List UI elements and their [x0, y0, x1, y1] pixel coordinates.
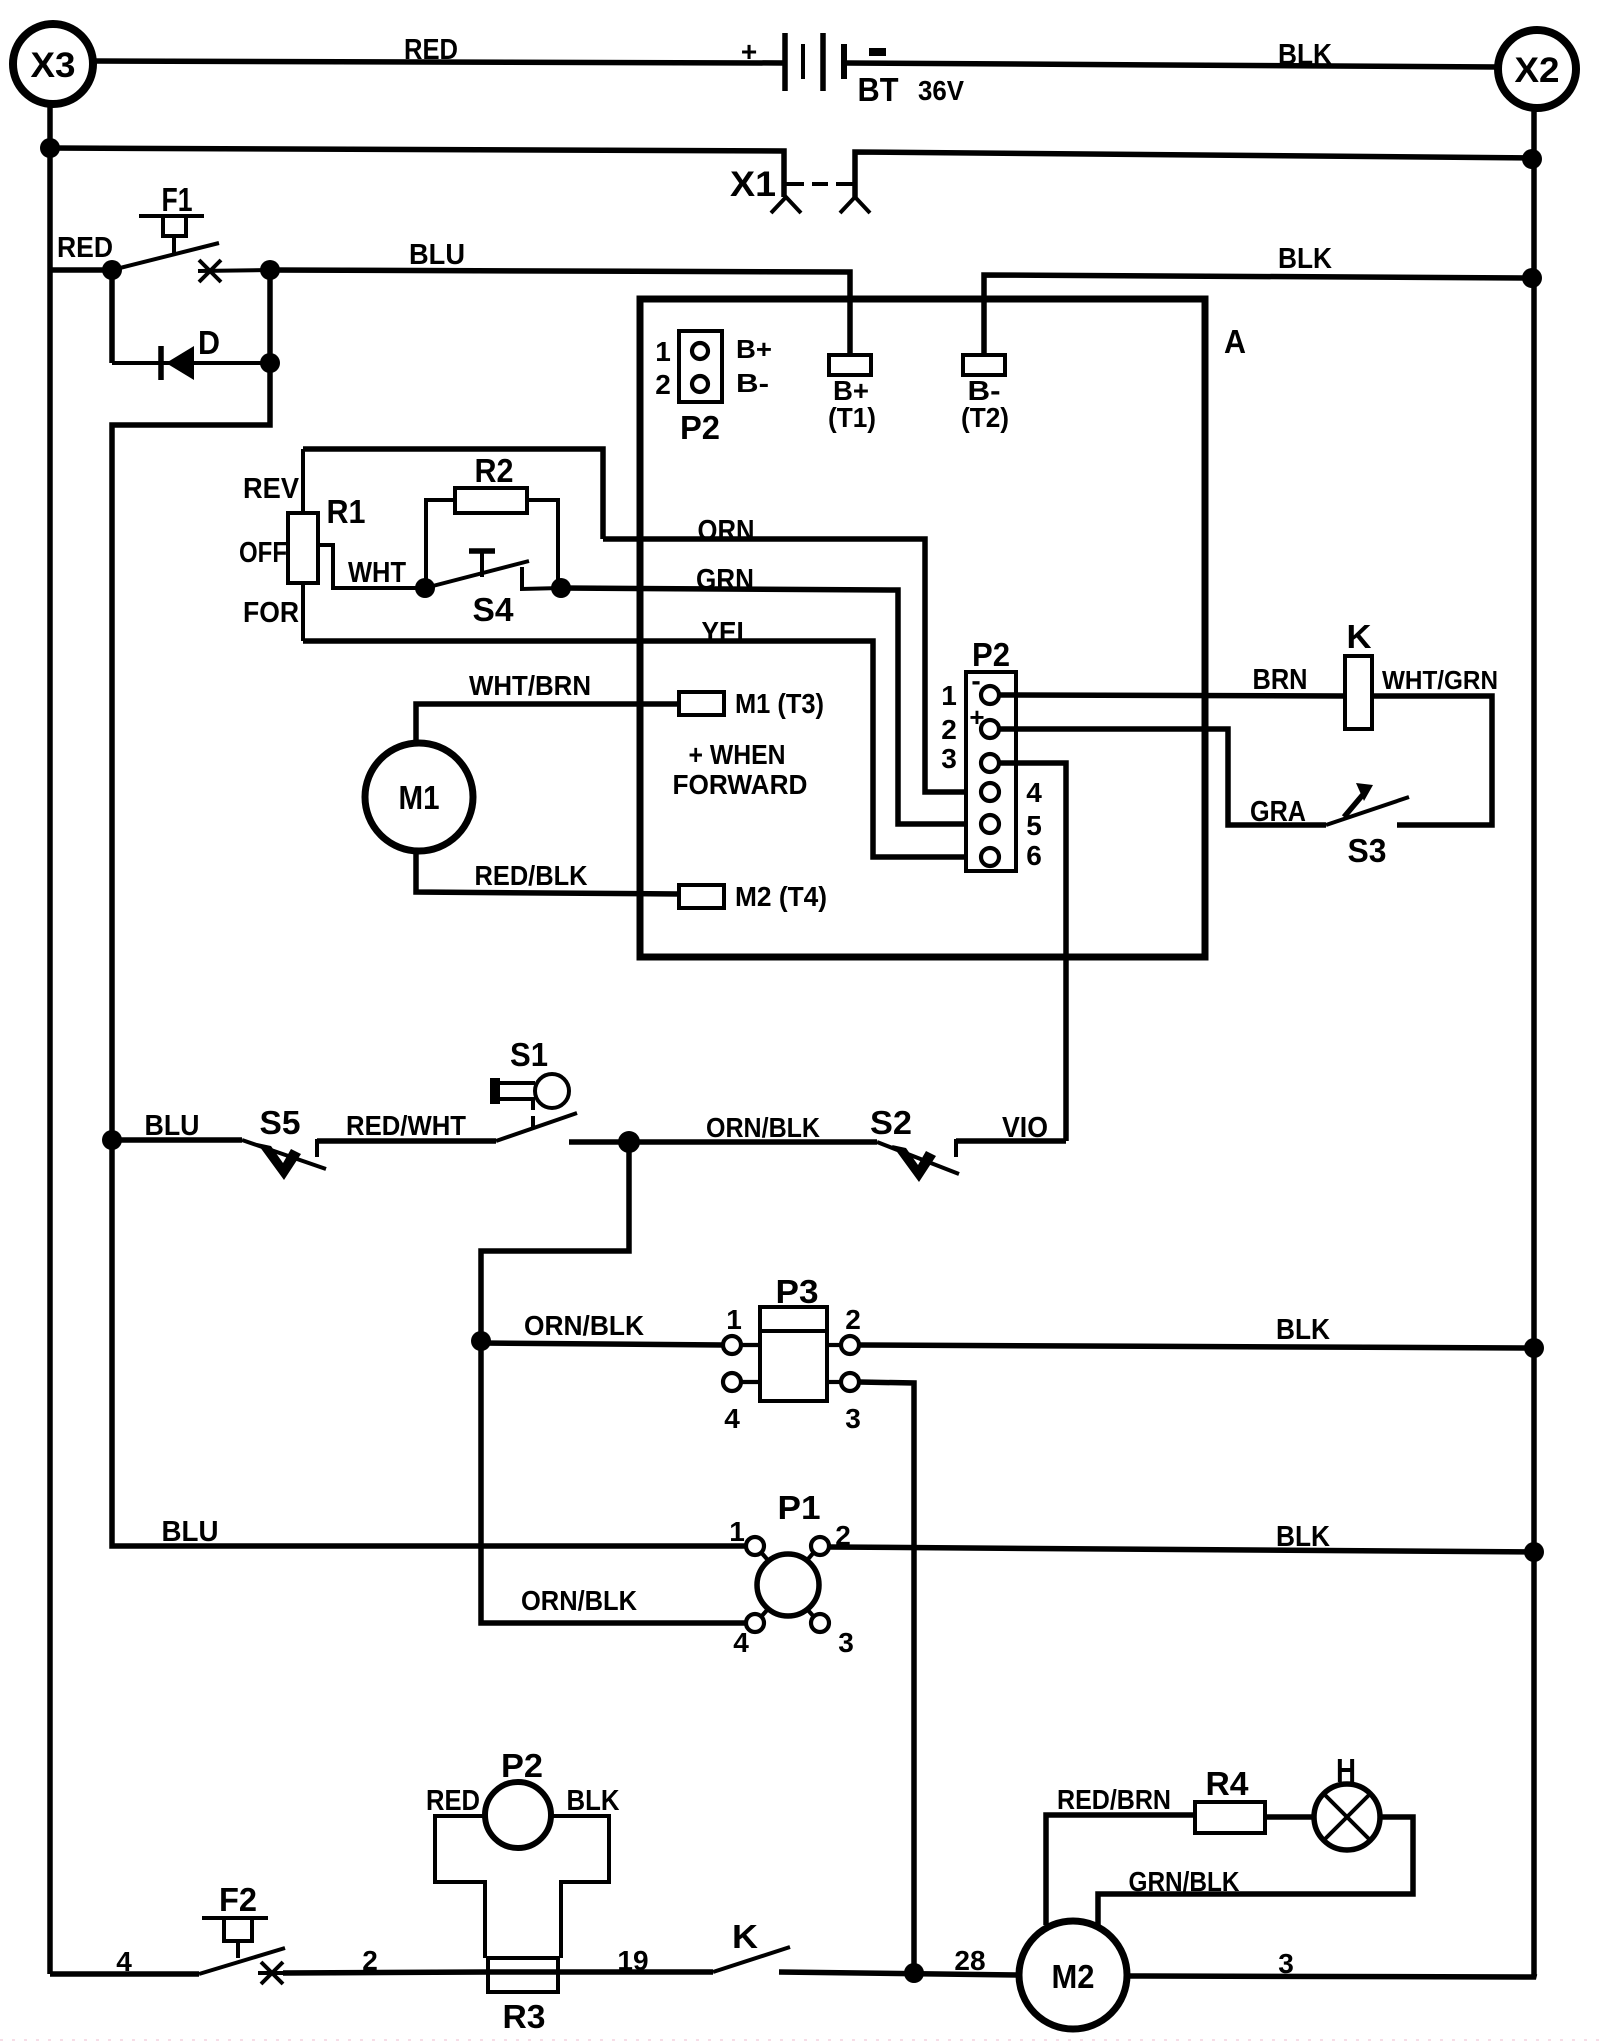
svg-text:X2: X2: [1515, 51, 1560, 90]
connector P3: [723, 1273, 861, 1434]
controller A box: [640, 299, 1205, 957]
svg-text:2: 2: [941, 714, 957, 745]
svg-text:P2: P2: [501, 1747, 543, 1784]
svg-text:BRN: BRN: [1253, 664, 1308, 696]
wire BLK P3 pin2 to X2 rail: [859, 1345, 1534, 1348]
svg-text:6: 6: [1026, 840, 1042, 871]
svg-text:4: 4: [724, 1403, 740, 1434]
svg-text:2: 2: [655, 369, 671, 400]
svg-text:RED: RED: [404, 34, 458, 66]
charger receptacle P2: [426, 1747, 620, 1958]
svg-text:P1: P1: [778, 1489, 821, 1526]
svg-text:RED: RED: [426, 1785, 480, 1817]
svg-text:A: A: [1224, 323, 1246, 360]
svg-text:BLK: BLK: [567, 1785, 620, 1817]
terminal B- (T2): [961, 355, 1009, 433]
svg-text:GRA: GRA: [1250, 796, 1306, 828]
svg-text:(T1): (T1): [828, 402, 876, 433]
wire ORN to P2 pin4: [603, 539, 982, 792]
lamp H: [1314, 1752, 1380, 1850]
wire X2 vertical drop: [1531, 108, 1537, 1976]
svg-text:B-: B-: [736, 368, 769, 398]
svg-text:D: D: [198, 324, 220, 361]
wire R3 through: [488, 1969, 713, 1975]
wire P3 pin3 drop to M2 rail: [859, 1382, 914, 1973]
svg-text:ORN/BLK: ORN/BLK: [706, 1112, 820, 1143]
svg-text:FORWARD: FORWARD: [673, 769, 808, 800]
svg-text:R3: R3: [503, 1998, 546, 2035]
svg-text:K: K: [732, 1918, 758, 1955]
svg-text:F1: F1: [162, 181, 193, 218]
fuse F1: [112, 181, 270, 282]
svg-text:+: +: [969, 702, 984, 732]
wire WHT/GRN K to S3: [1372, 696, 1492, 825]
svg-text:OFF: OFF: [239, 537, 287, 569]
svg-text:RED/WHT: RED/WHT: [346, 1110, 466, 1141]
resistor R2: [426, 452, 558, 588]
svg-text:BLK: BLK: [1276, 1314, 1330, 1346]
motor M2: [1019, 1921, 1127, 2029]
wire R4 to H: [1265, 1814, 1314, 1820]
resistor R4: [1195, 1765, 1265, 1833]
wire BLU from F1 to controller B+: [270, 270, 850, 355]
svg-text:M1 (T3): M1 (T3): [735, 688, 824, 719]
terminal X3: [13, 24, 93, 104]
svg-text:BT: BT: [858, 71, 899, 108]
terminal X2: [1498, 30, 1576, 108]
connector P2 (2-pin, inside A): [655, 331, 772, 446]
svg-text:ORN: ORN: [698, 515, 755, 547]
relay contact K: [713, 1918, 790, 1972]
wire BLK from controller B- to X2 rail: [984, 275, 1534, 355]
svg-text:BLK: BLK: [1278, 243, 1332, 275]
wire RED/BRN M2 to R4: [1046, 1815, 1195, 1925]
svg-text:1: 1: [941, 680, 957, 711]
svg-text:5: 5: [1026, 810, 1042, 841]
svg-text:X1: X1: [730, 165, 776, 204]
terminal M1 (T3): [679, 688, 824, 719]
wire F1 bypass loop: [112, 270, 270, 1140]
pushbutton S1: [490, 1036, 577, 1141]
wire F2 to R3: [283, 1972, 488, 1973]
svg-text:FOR: FOR: [243, 597, 299, 629]
wire BRN P2 pin1 to K coil: [999, 695, 1345, 696]
svg-text:RED/BRN: RED/BRN: [1057, 1784, 1171, 1815]
svg-text:RED: RED: [57, 232, 113, 264]
connector X1: [730, 165, 870, 213]
wire K to M2: [779, 1972, 1019, 1975]
svg-text:VIO: VIO: [1002, 1112, 1048, 1144]
svg-text:S2: S2: [870, 1104, 912, 1141]
wire ORN/BLK to P3 pin1: [481, 1343, 723, 1345]
svg-text:X3: X3: [31, 46, 76, 85]
svg-text:S3: S3: [1348, 832, 1387, 869]
terminal B+ (T1): [828, 355, 876, 433]
wire RED/WHT S5 to S1: [317, 1138, 496, 1144]
wire X3 vertical drop: [47, 104, 53, 1974]
relay coil K: [1345, 618, 1372, 729]
svg-text:S5: S5: [260, 1104, 301, 1141]
svg-text:REV: REV: [243, 473, 300, 505]
svg-text:WHT: WHT: [348, 557, 406, 589]
svg-text:4: 4: [733, 1627, 749, 1658]
svg-text:ORN/BLK: ORN/BLK: [521, 1585, 637, 1616]
svg-text:1: 1: [726, 1304, 742, 1335]
svg-text:1: 1: [655, 336, 671, 367]
svg-text:GRN: GRN: [696, 564, 754, 596]
wire VIO riser P2 pin3 to S2: [999, 763, 1066, 1141]
wire WHT/BRN M1 to terminal M1(T3): [416, 704, 679, 744]
svg-text:YEL: YEL: [702, 617, 753, 649]
wire second rail right of X1: [855, 152, 1534, 197]
svg-text:B+: B+: [736, 334, 772, 364]
svg-text:+: +: [741, 36, 757, 67]
svg-text:P3: P3: [776, 1273, 819, 1310]
wire BLU to P1 pin1: [112, 1140, 746, 1546]
potentiometer R1: [239, 449, 425, 641]
svg-text:M1: M1: [399, 779, 440, 816]
svg-text:WHT/GRN: WHT/GRN: [1382, 665, 1498, 695]
wire GRN/BLK H to M2: [1098, 1817, 1413, 1925]
wire second rail left of X1: [50, 148, 784, 197]
wire RED top rail from X3 to battery +: [94, 61, 784, 63]
svg-text:ORN/BLK: ORN/BLK: [524, 1310, 644, 1341]
wire RED stub X3 to F1: [50, 267, 112, 273]
battery BT: [741, 33, 964, 108]
wire REV top loop R1 to ORN: [303, 449, 603, 539]
switch S4: [425, 551, 561, 628]
wire junction drop to P3 feed: [481, 1142, 746, 1623]
svg-text:S4: S4: [473, 591, 515, 628]
wire BLU to S5: [112, 1137, 242, 1143]
switch S2: [870, 1104, 970, 1182]
wire GRA P2 pin2 to S3: [999, 729, 1326, 825]
svg-text:BLK: BLK: [1276, 1521, 1330, 1553]
svg-text:(T2): (T2): [961, 402, 1009, 433]
connector P1: [729, 1489, 854, 1658]
wire S1 to junction: [569, 1139, 877, 1145]
svg-text:WHT/BRN: WHT/BRN: [469, 670, 591, 701]
wire VIO S2 to riser: [956, 1138, 1066, 1144]
wire M2 to X2 rail: [1127, 1976, 1536, 1977]
svg-text:RED/BLK: RED/BLK: [475, 860, 588, 891]
svg-text:3: 3: [838, 1627, 854, 1658]
svg-text:3: 3: [941, 743, 957, 774]
svg-text:BLU: BLU: [162, 1516, 219, 1548]
wire bottom rail to F2: [50, 1971, 199, 1977]
svg-text:R4: R4: [1206, 1765, 1250, 1802]
svg-text:K: K: [1347, 618, 1372, 655]
switch S5: [242, 1104, 330, 1180]
motor M1: [365, 743, 473, 851]
svg-text:28: 28: [954, 1945, 985, 1976]
switch S3: [1326, 783, 1409, 869]
svg-text:GRN/BLK: GRN/BLK: [1129, 1866, 1240, 1897]
svg-text:BLU: BLU: [409, 239, 465, 271]
svg-text:+ WHEN: + WHEN: [689, 739, 786, 770]
svg-text:BLU: BLU: [145, 1110, 200, 1142]
svg-text:-: -: [971, 665, 980, 696]
svg-text:19: 19: [617, 1945, 648, 1976]
svg-text:2: 2: [845, 1304, 861, 1335]
connector P2 (6-pin, inside A): [941, 636, 1042, 871]
svg-text:R1: R1: [327, 493, 366, 530]
fuse F2: [199, 1881, 285, 1984]
svg-text:P2: P2: [680, 409, 720, 446]
wire RED/BLK M1 to terminal M2(T4): [416, 851, 679, 894]
svg-text:M2 (T4): M2 (T4): [735, 881, 827, 912]
wire BLK P1 pin2 to X2 rail: [829, 1547, 1534, 1552]
svg-text:3: 3: [845, 1403, 861, 1434]
svg-text:3: 3: [1278, 1948, 1294, 1979]
wire BLK top rail from battery - to X2: [846, 63, 1499, 67]
svg-text:S1: S1: [510, 1036, 548, 1073]
resistor R3: [488, 1958, 558, 2035]
wire YEL to P2 pin6: [303, 641, 982, 857]
page edge artifact: [0, 2039, 1600, 2041]
svg-text:36V: 36V: [918, 75, 964, 106]
svg-text:R2: R2: [475, 452, 514, 489]
wire GRN to P2 pin5: [561, 588, 982, 824]
diode D: [112, 270, 270, 380]
svg-text:BLK: BLK: [1278, 39, 1332, 71]
terminal M2 (T4): [679, 881, 827, 912]
svg-text:F2: F2: [219, 1881, 257, 1918]
svg-text:M2: M2: [1052, 1958, 1095, 1995]
svg-text:1: 1: [729, 1516, 745, 1547]
svg-text:4: 4: [1026, 777, 1042, 808]
